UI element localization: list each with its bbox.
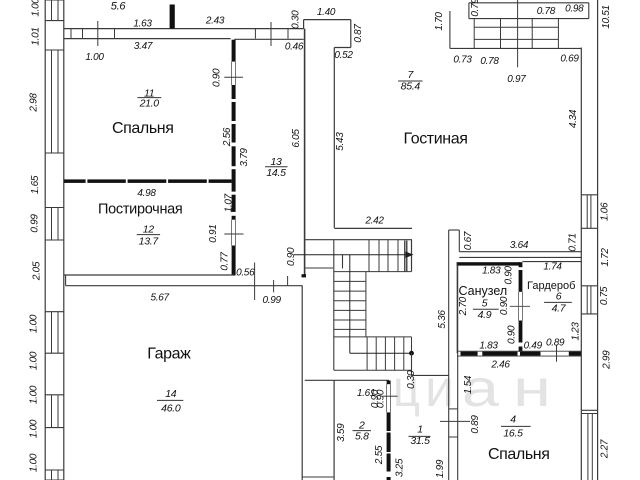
svg-text:0.30: 0.30: [291, 10, 302, 29]
svg-text:1.00: 1.00: [29, 385, 40, 404]
porch left line: [449, 11, 451, 48]
svg-text:2.56: 2.56: [222, 127, 233, 147]
svg-text:4.98: 4.98: [137, 188, 156, 199]
duct wall line: [304, 29, 306, 277]
svg-text:0.79: 0.79: [470, 0, 481, 17]
right wall inner line: [580, 48, 582, 480]
partition black segments middle: [232, 85, 236, 99]
divider black lower: [519, 321, 523, 343]
svg-text:Спальня: Спальня: [112, 120, 174, 137]
step wall top-left of living room: [303, 20, 305, 29]
svg-text:5.8: 5.8: [355, 430, 369, 442]
staircase upper flight: [333, 240, 335, 371]
svg-text:10.51: 10.51: [601, 5, 612, 29]
svg-text:0.67: 0.67: [463, 231, 474, 250]
door opening 0.90 room2: [386, 384, 388, 412]
svg-text:5.36: 5.36: [437, 310, 448, 329]
top wall ticks: [70, 29, 72, 39]
svg-text:4: 4: [510, 413, 516, 425]
svg-text:1.00: 1.00: [29, 419, 40, 438]
garage right wall: [301, 286, 303, 480]
stair walk line start dot: [409, 351, 414, 356]
porch center dimension line: [517, 0, 519, 67]
svg-text:2.55: 2.55: [374, 445, 385, 465]
laundry-garage connector: [65, 275, 67, 286]
svg-text:3.59: 3.59: [336, 423, 347, 442]
svg-text:0.69: 0.69: [560, 54, 579, 65]
svg-text:1.83: 1.83: [479, 340, 498, 351]
svg-text:Спальня: Спальня: [488, 446, 550, 463]
svg-text:1.00: 1.00: [85, 52, 104, 63]
svg-text:4.7: 4.7: [552, 303, 567, 315]
svg-text:3.47: 3.47: [134, 41, 153, 52]
svg-text:0.56: 0.56: [236, 268, 255, 279]
svg-text:85.4: 85.4: [401, 80, 421, 92]
bathroom top wall black: [457, 262, 521, 265]
svg-text:0.98: 0.98: [565, 4, 584, 15]
svg-text:1.00: 1.00: [29, 351, 40, 370]
svg-text:4.9: 4.9: [478, 309, 492, 321]
svg-text:0.75: 0.75: [599, 286, 610, 305]
svg-text:1.74: 1.74: [543, 261, 562, 272]
svg-text:6: 6: [556, 291, 562, 303]
svg-text:5.6: 5.6: [111, 1, 127, 13]
porch steps: [473, 19, 475, 49]
door 0.89 ticks bedroom4: [449, 408, 458, 410]
svg-text:0.91: 0.91: [208, 224, 219, 242]
svg-text:1.23: 1.23: [571, 322, 582, 341]
window left wall garage 1: [45, 311, 64, 313]
svg-text:0.46: 0.46: [285, 42, 304, 53]
divider bathroom/wardrobe black: [519, 262, 523, 267]
svg-text:1.01: 1.01: [31, 27, 42, 45]
svg-text:0.90: 0.90: [499, 296, 510, 315]
svg-text:0.90: 0.90: [375, 389, 386, 408]
wall 3.64 double line: [459, 251, 581, 253]
svg-text:0.89: 0.89: [546, 338, 565, 349]
svg-text:4.34: 4.34: [568, 109, 579, 128]
svg-text:Гараж: Гараж: [147, 345, 191, 362]
svg-text:0.90: 0.90: [504, 266, 515, 285]
svg-text:0.99: 0.99: [262, 295, 281, 306]
svg-text:н: н: [513, 360, 551, 418]
svg-text:0.77: 0.77: [220, 252, 231, 271]
svg-text:2.70: 2.70: [458, 296, 469, 316]
chimney box: [449, 229, 460, 231]
garage opening ticks: [254, 263, 256, 301]
top wall lower line: [64, 38, 231, 40]
svg-text:2.43: 2.43: [205, 16, 225, 27]
partition black segments room1: [387, 412, 391, 431]
svg-text:31.5: 31.5: [410, 435, 430, 447]
partition bar top room: [170, 5, 175, 29]
stair hall top wall: [306, 239, 413, 241]
svg-text:5: 5: [482, 297, 488, 309]
svg-text:1.65: 1.65: [30, 175, 41, 194]
corridor band right line: [457, 263, 459, 480]
svg-text:0.73: 0.73: [453, 55, 472, 66]
corridor band left line: [448, 230, 450, 480]
svg-text:2.42: 2.42: [364, 216, 384, 227]
bottom corridor line: [302, 476, 334, 478]
window right wall 2.27: [581, 409, 597, 411]
svg-text:3.25: 3.25: [395, 458, 406, 477]
staircase bottom flight: [366, 337, 368, 370]
window left wall garage 2: [45, 394, 64, 396]
svg-text:2.46: 2.46: [490, 360, 510, 371]
svg-text:0.97: 0.97: [507, 74, 526, 85]
svg-text:14: 14: [165, 388, 177, 400]
svg-text:Санузел: Санузел: [459, 284, 508, 298]
svg-text:1.54: 1.54: [463, 375, 474, 394]
window left wall laundry: [45, 207, 64, 209]
stair hall door lines: [306, 267, 334, 269]
svg-text:0.52: 0.52: [334, 50, 353, 61]
wardrobe top line: [522, 261, 581, 263]
svg-text:46.0: 46.0: [161, 403, 181, 415]
door opening 0.91 in partition: [231, 220, 233, 246]
svg-text:1.00: 1.00: [29, 314, 40, 333]
svg-text:1.06: 1.06: [599, 202, 610, 221]
svg-text:1.72: 1.72: [600, 248, 611, 267]
svg-text:16.5: 16.5: [503, 427, 523, 439]
svg-text:2.27: 2.27: [600, 439, 611, 459]
svg-text:Постирочная: Постирочная: [98, 202, 182, 218]
window left wall top: [45, 0, 64, 1]
stair exit wall corner: [411, 353, 413, 375]
svg-text:1: 1: [417, 424, 423, 436]
laundry bottom wall: [64, 274, 234, 276]
dimension line 2.43 end: [270, 22, 272, 46]
porch box: [468, 3, 470, 19]
svg-text:0.87: 0.87: [353, 24, 364, 43]
svg-text:0.99: 0.99: [30, 214, 41, 233]
svg-text:0.30: 0.30: [406, 370, 417, 389]
svg-text:21.0: 21.0: [139, 98, 160, 110]
window right wall 0.75: [581, 285, 597, 287]
svg-text:13.7: 13.7: [139, 235, 160, 247]
svg-text:1.00: 1.00: [29, 453, 40, 472]
svg-text:Гостиная: Гостиная: [404, 130, 468, 147]
room2 left wall: [333, 380, 335, 480]
svg-text:2.98: 2.98: [29, 93, 40, 113]
stair walk line with arrow: [294, 254, 410, 256]
svg-text:0.78: 0.78: [537, 6, 556, 17]
window left wall garage 3: [45, 469, 64, 471]
svg-text:0.49: 0.49: [524, 340, 543, 351]
svg-text:3.64: 3.64: [510, 240, 529, 251]
svg-text:0.78: 0.78: [480, 56, 499, 67]
svg-text:1.99: 1.99: [435, 459, 446, 478]
staircase left flight: [365, 272, 367, 337]
door opening 0.90 in partition: [231, 62, 233, 85]
partition black bottom segment: [232, 246, 236, 276]
svg-text:0.71: 0.71: [568, 233, 579, 251]
window right wall 1.06: [581, 194, 597, 196]
svg-text:Гардероб: Гардероб: [527, 280, 575, 292]
svg-text:12: 12: [143, 224, 155, 236]
thick wall bedroom-laundry: [64, 179, 86, 183]
svg-text:1.83: 1.83: [482, 265, 501, 276]
bathroom left wall: [456, 262, 458, 353]
svg-text:0.90: 0.90: [212, 68, 223, 87]
svg-text:0.89: 0.89: [470, 415, 481, 434]
svg-text:14.5: 14.5: [266, 167, 286, 179]
bathroom bottom wall band: [457, 350, 581, 352]
porch bottom line: [450, 47, 581, 49]
living room left wall: [333, 48, 335, 228]
svg-text:1.07: 1.07: [224, 193, 235, 212]
duct wall bottom cap: [302, 274, 307, 277]
svg-text:1.00: 1.00: [31, 0, 42, 17]
left exterior wall outer line: [44, 0, 46, 480]
svg-text:1.40: 1.40: [317, 7, 336, 18]
top wall upper line: [64, 28, 304, 30]
partition room2/room1 black: [387, 381, 391, 385]
living room bottom wall: [334, 227, 412, 229]
svg-text:1.63: 1.63: [133, 19, 152, 30]
door 0.89 tick wardrobe: [556, 345, 558, 362]
svg-text:3.79: 3.79: [239, 148, 250, 167]
svg-text:5.43: 5.43: [335, 132, 346, 151]
svg-text:2.05: 2.05: [32, 261, 43, 281]
dimension line 1.00 door: [97, 21, 99, 46]
svg-text:0.90: 0.90: [507, 325, 518, 344]
svg-text:2.99: 2.99: [601, 350, 612, 370]
door opening 0.90 bathroom: [518, 292, 520, 321]
svg-text:1.70: 1.70: [434, 12, 445, 31]
left exterior wall inner line: [63, 0, 65, 480]
partition bedroom right black segments: [232, 40, 236, 62]
svg-text:0.90: 0.90: [286, 247, 297, 266]
right wall outer line: [597, 0, 599, 480]
window left wall bedroom: [45, 49, 64, 51]
room2 top wall: [305, 379, 389, 381]
svg-text:6.05: 6.05: [291, 129, 302, 148]
svg-text:5.67: 5.67: [150, 293, 169, 304]
garage top wall: [66, 285, 303, 287]
